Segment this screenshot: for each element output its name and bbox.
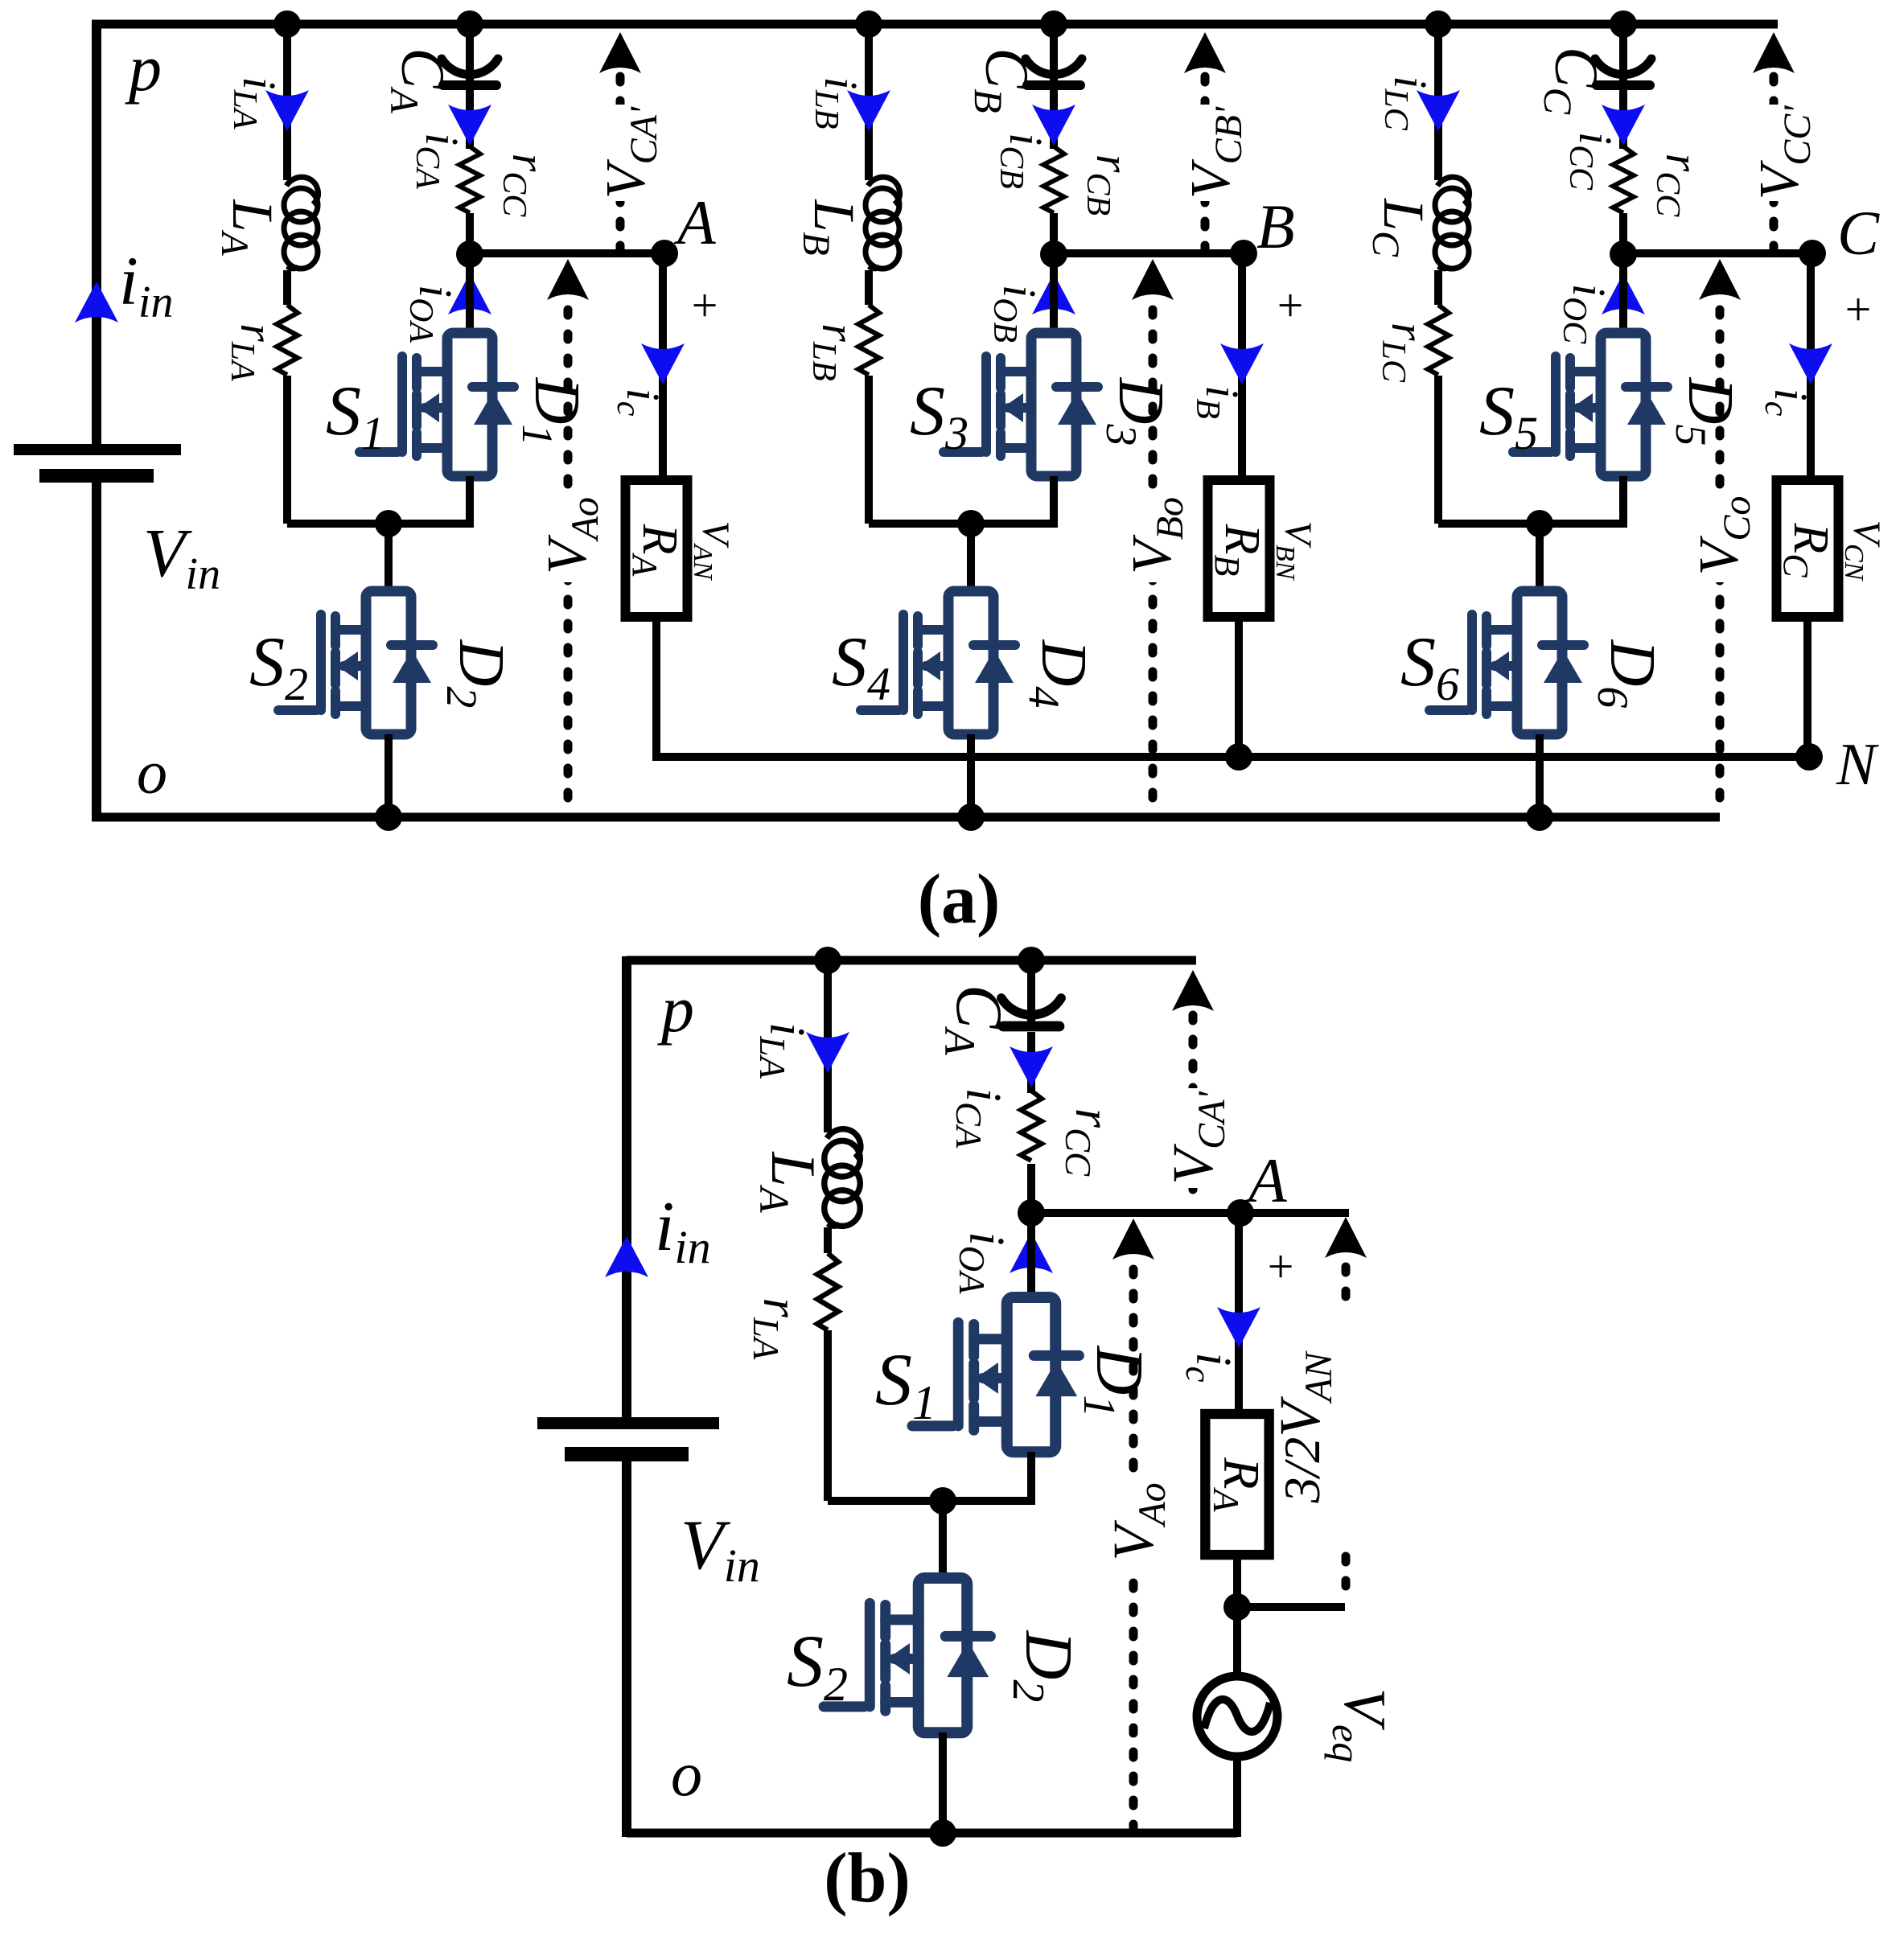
node: LC branch at p rail [1425,10,1452,38]
svg-text:rLA: rLA [746,1298,808,1360]
svg-text:p: p [125,31,162,105]
dashed arrow V_Bo [1132,259,1174,812]
node: CB/S3 junction [1040,240,1067,268]
wire: node A down to RA (b) [1235,1213,1243,1416]
transistor S4 [861,591,1015,734]
resistor rCC (b) [1018,1091,1044,1164]
svg-text:+: + [1265,1240,1296,1293]
resistor rCC [457,146,483,213]
svg-text:RC: RC [1776,522,1838,577]
wire: junction to node C [1623,249,1812,257]
svg-text:D2: D2 [1003,1630,1086,1703]
transistor S2 (b) [824,1578,990,1732]
resistor rLC [1425,305,1451,376]
label LB [795,199,866,255]
svg-text:VCN: VCN [1839,520,1888,582]
dashed arrow V_Ao [547,259,589,812]
node: LB branch at p rail [855,10,882,38]
current arrow i_c (phase A) [641,343,685,384]
label i_C [1758,388,1817,417]
svg-text:N: N [1836,732,1879,798]
node: S4 at o rail [957,803,985,831]
wire: junction to wire end (b) [1031,1209,1349,1217]
label i_c (b) [1178,1352,1240,1382]
svg-text:RA: RA [625,524,687,577]
resistor RA (b) [1205,1414,1269,1555]
svg-text:o: o [137,739,167,807]
svg-text:iOA: iOA [952,1231,1014,1294]
node: LA branch at p rail (b) [814,947,841,974]
wire: S3 drain [1050,254,1058,338]
label rCC (b) [1058,1108,1120,1177]
svg-text:S1: S1 [326,372,385,459]
label V_Co [1688,489,1758,582]
node: phase C midpoint [1526,510,1553,537]
svg-text:LC: LC [1364,198,1436,257]
wire: S2 drain (b) [939,1501,947,1583]
current arrow i_CA [448,105,491,146]
svg-text:+: + [1274,279,1306,331]
dashed arrow V_CA' (b) [1172,970,1214,1208]
label rCB [1079,154,1139,216]
current arrow i_LB [847,90,890,131]
svg-text:S4: S4 [832,623,890,710]
source Veq [1197,1676,1277,1757]
wire: inductor branch LA vertical (b) [824,960,832,1501]
current arrow i_c (b) [1217,1307,1260,1348]
label V_Ao [537,489,607,582]
svg-text:A: A [673,187,716,257]
wire: junction to node B [1054,249,1244,257]
wire: top p rail (b) [627,956,1196,965]
svg-text:D5: D5 [1667,377,1746,446]
label rCC [496,154,555,218]
label V_CA' (b) [1161,1088,1233,1188]
label i_OB [986,285,1046,343]
label i_CB [993,133,1052,189]
svg-text:o: o [671,1739,702,1809]
wire: S5 drain [1619,254,1627,338]
label rLA [224,323,283,381]
label i_OC [1556,284,1615,344]
label V_Bo [1121,489,1191,582]
node N [1795,743,1823,771]
svg-text:CC: CC [1536,47,1610,115]
svg-text:S1: S1 [875,1338,936,1429]
label LA [213,199,285,256]
label i_CC [1562,132,1622,191]
battery Vin [14,444,181,483]
resistor RA [626,480,688,617]
node: RB at N rail [1225,743,1252,771]
svg-text:S2: S2 [787,1620,848,1711]
svg-text:rCC: rCC [496,154,555,218]
label CB [966,47,1040,113]
label D2 (b) [1003,1630,1086,1703]
wire: S4 source [967,734,975,817]
current arrow i_OB [1032,273,1075,314]
label i_LB [808,76,867,129]
label CA [382,47,456,113]
label V_CA' [595,105,665,201]
label i_CA (b) [948,1088,1010,1149]
label LA (b) [750,1151,829,1212]
node: phase A midpoint [375,510,402,537]
wire: RB to N rail [1235,617,1243,761]
wire: S1 source [466,476,474,528]
node: LA branch at p rail [273,10,301,38]
svg-text:rCB: rCB [1079,154,1139,216]
resistor rLA (b) [815,1253,841,1330]
wire: capacitor branch CA upper [466,24,474,80]
node: S2 at o rail (b) [929,1819,956,1847]
svg-text:p: p [657,972,694,1046]
resistor rLA [274,305,300,376]
svg-text:rLB: rLB [805,323,865,381]
label rLC [1375,323,1434,383]
current arrow i_CC [1602,105,1645,146]
transistor S1 (b) [912,1297,1079,1452]
wire: S1 drain [466,254,474,338]
wire: capacitor branch CB lower [1050,90,1058,254]
svg-text:rCC: rCC [1649,154,1709,218]
resistor rCC (phase C) [1610,146,1636,213]
label i_B [1189,385,1248,419]
wire: inductor branch LC vertical [1434,24,1442,524]
wire: capacitor branch CA lower [466,90,474,254]
svg-text:CB: CB [966,47,1040,113]
svg-text:rCC: rCC [1058,1108,1120,1177]
node C [1799,240,1826,267]
svg-text:C: C [1837,198,1880,268]
wire: S6 source [1536,734,1544,817]
wire: midpoint (b) [828,1497,1031,1505]
inductor LA (b) [823,1129,861,1227]
label rCC (phase C) [1649,154,1709,218]
wire: RA to N rail [652,617,660,761]
dashed arrow V_CA' [599,32,641,249]
current arrow i_B [1220,343,1264,384]
wire: left input branch upper (b) [622,956,631,1417]
wire: N rail [656,753,1811,761]
capacitor CA (b) [1001,998,1061,1026]
svg-text:LA: LA [213,199,285,256]
wire: S1 drain (b) [1027,1213,1035,1303]
wire: phase C midpoint [1438,520,1623,528]
label i_LC [1377,76,1437,130]
current arrow i_LA (b) [806,1032,849,1073]
svg-text:S5: S5 [1479,372,1538,459]
wire: RC to node N [1803,617,1811,757]
label D2 [438,639,516,709]
node: phase B midpoint [957,510,985,537]
label Veq [1324,1688,1397,1762]
svg-text:+: + [689,279,720,331]
label CC [1536,47,1610,115]
label V_CN [1839,520,1888,582]
resistor RB [1208,480,1270,617]
node: CB branch at p rail [1040,10,1067,38]
label i_LA (b) [752,1022,814,1079]
wire: capacitor branch CA lower (b) [1027,1032,1035,1213]
wire: node A down to RA [659,253,667,483]
svg-text:iLA: iLA [752,1022,814,1079]
resistor rLB [856,305,882,376]
wire: left input branch lower [92,483,101,821]
label i_c (phase A) [610,388,669,417]
node: midpoint (b) [929,1487,956,1515]
node A [651,240,678,267]
node: CA branch at p rail [456,10,483,38]
wire: inductor branch LA vertical [283,24,291,524]
wire: capacitor branch CC lower [1619,90,1627,254]
node: CC branch at p rail [1610,10,1637,38]
dashed arrow V_CB' [1184,32,1226,249]
svg-text:CA: CA [936,984,1016,1056]
wire: S2 source [385,734,393,817]
node A (b) [1227,1199,1254,1227]
current arrow i_LC [1417,90,1460,131]
label V_BN [1270,521,1319,582]
current arrow i_C [1789,343,1832,384]
wire: node B down to RB [1238,253,1246,483]
wire: phase A midpoint [287,520,470,528]
label D1 [513,377,592,446]
resistor rCB [1041,146,1067,213]
transistor S5 [1513,333,1668,476]
svg-text:(b): (b) [824,1839,911,1917]
wire: bottom o rail [92,813,1720,822]
wire: capacitor branch CC upper [1619,24,1627,80]
svg-text:CA: CA [382,47,456,113]
svg-text:+: + [1842,283,1873,335]
svg-text:S3: S3 [910,372,968,459]
wire: phase B midpoint [869,520,1054,528]
node: CA branch at p rail (b) [1018,947,1045,974]
transistor S3 [944,333,1098,476]
svg-text:LB: LB [795,199,866,255]
node B [1230,240,1257,267]
dashed arrow V_Ao (b) [1112,1219,1154,1827]
svg-text:S2: S2 [249,623,308,710]
svg-text:VAN: VAN [688,521,737,582]
current arrow i_CB [1032,105,1075,146]
svg-text:(a): (a) [918,861,1001,939]
label D4 [1020,639,1099,709]
wire: S4 drain [967,524,975,595]
wire: top p rail [92,20,1778,29]
wire: S2 drain [385,524,393,595]
wire: left input branch lower (b) [622,1461,631,1837]
label D3 [1097,377,1176,446]
svg-text:D2: D2 [438,639,516,709]
label 3/2V_AN [1268,1309,1351,1547]
wire: bottom o rail (b) [627,1829,1237,1838]
node: S2 at o rail [375,803,402,831]
svg-text:ic: ic [1178,1352,1240,1382]
transistor S2 [278,591,433,734]
svg-text:rLA: rLA [224,323,283,381]
svg-text:D6: D6 [1589,639,1668,709]
current arrow i_in [75,282,118,323]
node: S6 at o rail [1526,803,1553,831]
capacitor CB [1026,59,1082,85]
label i_OA [402,285,462,343]
label D5 [1667,377,1746,446]
svg-text:A: A [1244,1145,1287,1215]
dashed arrow V_Co [1699,259,1741,812]
label V_Ao (b) [1101,1473,1174,1570]
wire: capacitor branch CA upper (b) [1027,960,1035,1021]
svg-text:D1: D1 [1074,1346,1157,1418]
label RA (b) [1206,1457,1270,1512]
svg-text:VBN: VBN [1270,521,1319,582]
wire: left input branch upper [92,20,101,447]
wire: S6 drain [1536,524,1544,595]
svg-text:RA: RA [1206,1457,1270,1512]
svg-text:LA: LA [750,1151,829,1212]
wire: junction to node A [470,249,664,257]
svg-text:D1: D1 [513,377,592,446]
wire: S2 source (b) [939,1732,947,1833]
label V_CB' [1180,105,1250,201]
svg-text:RB: RB [1207,524,1269,577]
current arrow i_OC [1602,273,1645,314]
svg-text:iCA: iCA [948,1088,1010,1149]
label i_CA [409,133,468,189]
transistor S1 [360,333,514,476]
current arrow i_OA (b) [1010,1232,1053,1273]
capacitor CA [442,59,498,85]
svg-text:Vin: Vin [143,514,220,599]
label rLA (b) [746,1298,808,1360]
transistor S6 [1429,591,1584,734]
label V_AN [688,521,737,582]
svg-text:D4: D4 [1020,639,1099,709]
label CA (b) [936,984,1016,1056]
wire: node to Veq source (b) [1233,1607,1241,1677]
inductor LC [1433,177,1470,270]
capacitor CC [1595,59,1651,85]
label i_OA (b) [952,1231,1014,1294]
current arrow i_CA (b) [1010,1046,1053,1087]
svg-text:Vin: Vin [681,1506,760,1592]
label LC [1364,198,1436,257]
label RA [625,524,687,577]
inductor LA [282,177,319,270]
wire: capacitor branch CB upper [1050,24,1058,80]
wire: S5 source [1619,476,1627,528]
wire: junction to 3/2VAN dash (b) [1237,1603,1345,1611]
inductor LB [864,177,900,270]
wire: inductor branch LB vertical [865,24,873,524]
label RB [1207,524,1269,577]
label D6 [1589,639,1668,709]
svg-text:iin: iin [655,1188,711,1273]
svg-text:Veq: Veq [1324,1688,1397,1762]
wire: S1 source (b) [1027,1452,1035,1505]
dashed arrow V_CC' [1753,32,1795,249]
resistor RC [1777,480,1839,617]
wire: RA to Veq node (b) [1233,1555,1241,1611]
label i_LA [226,76,286,129]
svg-text:rLC: rLC [1375,323,1434,383]
label RC [1776,522,1838,577]
wire: node C down to RC [1807,253,1815,483]
node: CA/S1 junction [456,240,483,268]
label rLB [805,323,865,381]
current arrow i_LA [265,90,309,131]
wire: S3 source [1050,476,1058,528]
battery Vin (b) [537,1417,719,1461]
node: CC/S5 junction [1610,240,1637,268]
svg-text:iin: iin [119,242,173,327]
wire: Veq to o rail (b) [1233,1757,1241,1837]
svg-text:B: B [1256,191,1295,261]
svg-text:D3: D3 [1097,377,1176,446]
label D1 (b) [1074,1346,1157,1418]
current arrow i_OA [448,273,491,314]
dashed arrow 3/2V_AN [1325,1217,1367,1599]
node: RA/Veq junction (b) [1223,1593,1251,1621]
svg-text:S6: S6 [1400,623,1459,710]
current arrow i_in (b) [605,1236,648,1277]
label V_CC' [1749,105,1819,201]
node: CA/S1 junction (b) [1018,1199,1045,1227]
